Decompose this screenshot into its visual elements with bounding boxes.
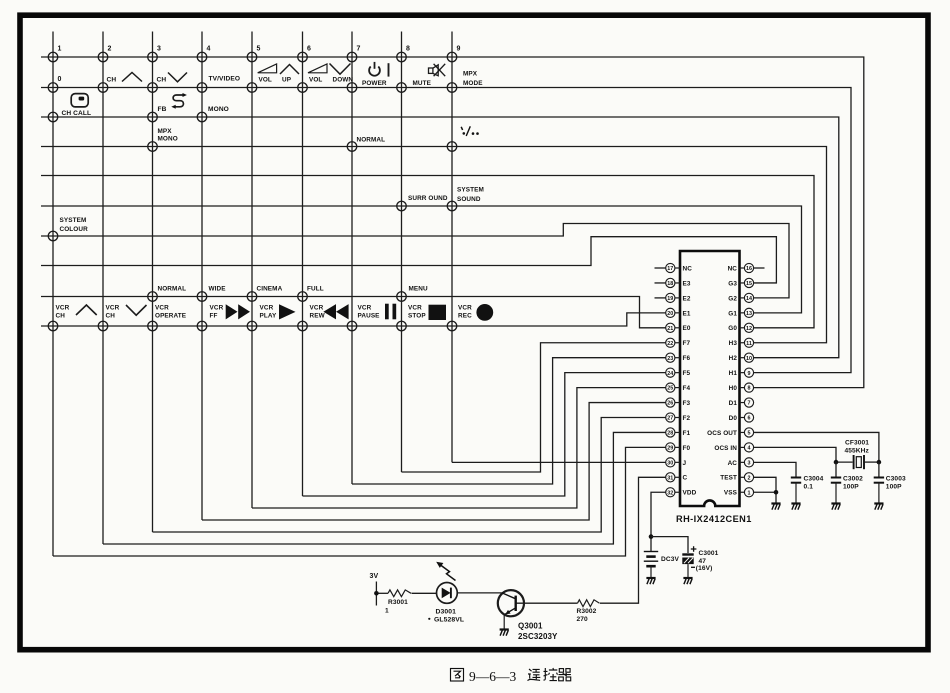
svg-text:PAUSE: PAUSE: [358, 313, 381, 320]
pin 32 VDD: [666, 488, 697, 497]
button key 5: [247, 52, 257, 62]
pin 5 OCS OUT: [707, 428, 753, 437]
svg-text:F6: F6: [683, 355, 691, 362]
svg-text:F0: F0: [683, 445, 691, 452]
pin 29 F0: [666, 443, 691, 452]
svg-text:MPX: MPX: [158, 128, 173, 135]
svg-text:C3001: C3001: [699, 550, 719, 557]
svg-text:D0: D0: [729, 415, 738, 422]
wire NC stub pin17: [655, 267, 666, 269]
wire C pin31 to R3002: [600, 477, 666, 603]
svg-text:18: 18: [667, 281, 673, 287]
button key VCR PLAY: [247, 321, 257, 331]
label POWER with standby icon: [362, 62, 389, 87]
svg-text:VCR: VCR: [56, 305, 70, 312]
svg-text:(16V): (16V): [696, 565, 713, 572]
svg-text:31: 31: [667, 475, 673, 481]
svg-text:SYSTEM: SYSTEM: [60, 217, 87, 224]
pin 30 J: [666, 458, 687, 467]
svg-text:3: 3: [748, 460, 751, 466]
svg-text:VCR: VCR: [210, 305, 224, 312]
svg-text:STOP: STOP: [408, 313, 426, 320]
svg-text:23: 23: [667, 356, 673, 362]
pin 12 G0: [728, 323, 753, 332]
label MUTE with muted-speaker icon: [413, 64, 446, 87]
svg-text:47: 47: [699, 558, 707, 565]
label VCR OPERATE: [155, 305, 187, 320]
label Q3001 2SC3203Y: [518, 622, 558, 642]
button key SYSTEM COLOUR: [48, 231, 58, 241]
svg-text:POWER: POWER: [362, 80, 387, 87]
pin 4 OCS IN: [714, 443, 753, 452]
svg-text:G0: G0: [728, 325, 737, 332]
wire matrix row 5 to G0 pin12: [41, 176, 814, 328]
svg-text:TV/VIDEO: TV/VIDEO: [209, 76, 241, 83]
button key MUTE: [397, 83, 407, 93]
wire key-matrix column 3: [152, 32, 154, 533]
button key CH up: [98, 83, 108, 93]
button key FB: [148, 112, 158, 122]
svg-text:2: 2: [108, 46, 112, 53]
svg-text:F2: F2: [683, 415, 691, 422]
label dot/slash icon: [461, 126, 479, 136]
wire NC stub pin18 (E3): [655, 282, 666, 284]
svg-text:D3001: D3001: [436, 609, 457, 616]
svg-text:1: 1: [385, 608, 389, 615]
svg-text:13: 13: [746, 311, 752, 317]
label VCR REC with icon: [458, 304, 493, 321]
svg-text:E0: E0: [683, 325, 691, 332]
button key FULL: [298, 292, 308, 302]
svg-text:REC: REC: [458, 313, 472, 320]
svg-text:9: 9: [457, 46, 461, 53]
button key 4: [197, 52, 207, 62]
svg-text:3: 3: [157, 46, 161, 53]
svg-text:CINEMA: CINEMA: [257, 286, 283, 293]
wire F3 pin26 to column 4: [202, 403, 666, 520]
svg-text:F7: F7: [683, 340, 691, 347]
svg-text:1: 1: [748, 490, 751, 496]
svg-text:OCS OUT: OCS OUT: [707, 430, 737, 437]
junction resonator right: [877, 460, 882, 465]
svg-text:21: 21: [667, 326, 673, 332]
wire key-matrix column 4: [201, 32, 203, 521]
svg-text:FF: FF: [210, 313, 218, 320]
caption: figure 9-6-3 remote controller: [451, 668, 571, 681]
svg-text:F1: F1: [683, 430, 691, 437]
button key 8: [397, 52, 407, 62]
wire key-matrix column 1: [52, 32, 54, 557]
transistor Q3001 2SC3203Y: [498, 590, 524, 629]
wire matrix row 7 to G2 pin14: [41, 224, 789, 298]
button key VOL DOWN: [298, 83, 308, 93]
svg-text:SYSTEM: SYSTEM: [457, 187, 484, 194]
button key VCR CH up: [48, 321, 58, 331]
button key MPX MONO: [148, 142, 158, 152]
svg-text:COLOUR: COLOUR: [60, 226, 89, 233]
label CF3001 455KHz: [845, 440, 870, 455]
svg-text:E1: E1: [683, 310, 691, 317]
junction VSS/TEST: [774, 490, 779, 495]
pin 15 G3: [728, 278, 753, 287]
junction resonator left: [834, 460, 839, 465]
wire F1 pin28 to column 2: [103, 432, 666, 544]
button key MENU: [397, 292, 407, 302]
wire VDD pin32 to battery node: [651, 492, 666, 551]
wire TEST pin2 to ground net: [754, 477, 777, 492]
ground (Q3001 emitter): [500, 630, 509, 636]
button key SYSTEM SOUND: [447, 201, 457, 211]
svg-text:SURR OUND: SURR OUND: [408, 195, 448, 202]
svg-text:2SC3203Y: 2SC3203Y: [518, 632, 558, 641]
svg-text:CH: CH: [157, 77, 167, 84]
pin 21 E0: [666, 323, 691, 332]
svg-text:NC: NC: [728, 265, 738, 272]
svg-text:100P: 100P: [843, 484, 859, 491]
svg-text:C3002: C3002: [843, 476, 863, 483]
svg-text:8: 8: [406, 46, 410, 53]
wire matrix row 10 (VCR row) to E1 pin20: [41, 313, 666, 326]
svg-text:12: 12: [746, 326, 752, 332]
svg-text:DOWN: DOWN: [333, 77, 354, 84]
svg-text:FULL: FULL: [307, 286, 324, 293]
button key POWER: [347, 83, 357, 93]
pin 16 NC: [728, 263, 754, 272]
svg-text:MODE: MODE: [463, 80, 483, 87]
wire NC stub pin19 (E2): [655, 297, 666, 299]
LED D3001 infrared: [436, 562, 457, 604]
svg-text:F4: F4: [683, 385, 691, 392]
button key VCR STOP: [397, 321, 407, 331]
button key WIDE: [197, 292, 207, 302]
wire F7 pin22 to column 8: [402, 343, 666, 472]
svg-text:UP: UP: [282, 77, 292, 84]
pin 22 F7: [666, 338, 691, 347]
svg-text:27: 27: [667, 416, 673, 422]
ground (C3004): [791, 504, 800, 510]
svg-text:2: 2: [748, 475, 751, 481]
svg-text:11: 11: [746, 341, 752, 347]
svg-text:E3: E3: [683, 280, 691, 287]
pin 19 E2: [666, 293, 691, 302]
pin 14 G2: [728, 293, 753, 302]
svg-text:30: 30: [667, 460, 673, 466]
svg-text:RH-IX2412CEN1: RH-IX2412CEN1: [676, 514, 752, 524]
label C3002 100P: [843, 476, 863, 491]
button key 0: [48, 83, 58, 93]
svg-text:PLAY: PLAY: [260, 313, 277, 320]
button key VCR FF: [197, 321, 207, 331]
label MPX MONO: [158, 128, 178, 143]
wire R3001 to LED: [412, 592, 437, 594]
pin 13 G1: [728, 308, 753, 317]
svg-text:455KHz: 455KHz: [845, 448, 870, 455]
pin 2 TEST: [720, 473, 753, 482]
resistor R3002: [578, 600, 600, 607]
svg-text:16: 16: [746, 266, 752, 272]
wire VDD node to C3001: [651, 537, 688, 553]
ground (C3001): [683, 578, 692, 584]
button key VCR REC: [447, 321, 457, 331]
wire matrix row 6 to G1 pin13: [41, 206, 802, 313]
ground (battery): [646, 578, 655, 584]
button key 1: [48, 52, 58, 62]
wire key-matrix column 2: [102, 32, 104, 545]
svg-text:R3002: R3002: [577, 608, 597, 615]
svg-text:1: 1: [58, 46, 62, 53]
svg-text:4: 4: [748, 446, 751, 452]
pin 26 F3: [666, 398, 691, 407]
svg-text:9: 9: [748, 371, 751, 377]
pin 11 H3: [729, 338, 754, 347]
svg-text:CH: CH: [56, 313, 66, 320]
svg-text:H1: H1: [729, 370, 738, 377]
svg-text:VOL: VOL: [259, 77, 272, 84]
svg-text:H2: H2: [729, 355, 738, 362]
pin 10 H2: [729, 353, 754, 362]
label VCR PAUSE with icon: [358, 304, 397, 320]
label CH CALL with icon: [62, 94, 92, 117]
label VCR STOP with icon: [408, 305, 446, 321]
wire key-matrix column 5: [251, 32, 253, 509]
label CH up: [107, 73, 143, 84]
svg-text:C3003: C3003: [886, 476, 906, 483]
svg-text:100P: 100P: [886, 484, 902, 491]
wire matrix row 1 to H0 pin8: [41, 57, 864, 388]
label VCR CH down with icon: [106, 305, 147, 320]
svg-text:OPERATE: OPERATE: [155, 313, 187, 320]
label VOL DOWN with icon: [308, 64, 353, 84]
button key VCR PAUSE: [347, 321, 357, 331]
svg-text:VCR: VCR: [106, 305, 120, 312]
button key 7: [347, 52, 357, 62]
op-amp U1: IC RH-IX2412CEN1 body: [680, 251, 740, 506]
wire matrix row 2 to H1 pin9: [41, 88, 851, 373]
button key VOL UP: [247, 83, 257, 93]
junction VDD node: [649, 534, 654, 539]
pin 20 E1: [666, 308, 691, 317]
label R3001 1: [385, 599, 408, 615]
svg-text:TEST: TEST: [720, 475, 737, 482]
label C3001 + 47 (16V): [691, 546, 719, 572]
svg-text:VOL: VOL: [309, 77, 322, 84]
label VOL UP with icon: [258, 64, 299, 84]
button key SURROUND: [397, 201, 407, 211]
svg-text:MENU: MENU: [409, 286, 429, 293]
svg-text:VCR: VCR: [358, 305, 372, 312]
svg-text:20: 20: [667, 311, 673, 317]
wire F5 pin24 to column 6: [303, 373, 666, 496]
svg-text:NORMAL: NORMAL: [357, 137, 386, 144]
label CH down: [157, 73, 188, 84]
svg-text:24: 24: [667, 371, 673, 377]
svg-text:H3: H3: [729, 340, 738, 347]
pin 3 AC: [728, 458, 754, 467]
capacitor C3003 100P: [874, 462, 884, 503]
svg-text:10: 10: [746, 356, 752, 362]
svg-text:9—6—3: 9—6—3: [469, 669, 517, 684]
svg-text:MONO: MONO: [158, 136, 178, 143]
svg-text:VSS: VSS: [724, 490, 738, 497]
wire matrix row 9 to E0 pin21: [41, 297, 666, 328]
svg-text:25: 25: [667, 386, 673, 392]
button key CH down: [148, 83, 158, 93]
ground (VSS): [771, 504, 780, 510]
svg-text:VCR: VCR: [310, 305, 324, 312]
svg-text:G1: G1: [728, 310, 737, 317]
svg-text:GL528VL: GL528VL: [434, 617, 464, 624]
wire NC stub pin16: [754, 267, 765, 269]
svg-text:5: 5: [748, 431, 751, 437]
svg-text:3V: 3V: [370, 573, 379, 580]
svg-text:VCR: VCR: [155, 305, 169, 312]
button key 3: [148, 52, 158, 62]
wire 3V to R3001: [376, 592, 388, 594]
pin 1 VSS: [724, 488, 754, 497]
wire OCS IN pin4 to resonator: [754, 447, 837, 462]
wire F0 pin29 to column 1: [53, 447, 666, 556]
svg-text:R3001: R3001: [388, 599, 408, 606]
svg-text:0.1: 0.1: [804, 484, 814, 491]
ground (C3002): [831, 504, 840, 510]
pin 27 F2: [666, 413, 691, 422]
svg-text:5: 5: [257, 46, 261, 53]
label R3002 270: [577, 608, 597, 623]
svg-text:6: 6: [748, 416, 751, 422]
capacitor C3004 0.1: [791, 478, 801, 504]
button key VCR OPERATE: [148, 321, 158, 331]
wire F2 pin27 to column 3: [153, 418, 666, 533]
svg-text:29: 29: [667, 446, 673, 452]
label C3004 0.1: [804, 476, 824, 491]
svg-text:NORMAL: NORMAL: [158, 286, 187, 293]
label FB with loop icon: [158, 93, 187, 113]
svg-text:F5: F5: [683, 370, 691, 377]
svg-text:SOUND: SOUND: [457, 196, 481, 203]
button key NORMAL (picture): [148, 292, 158, 302]
button key MPX MODE: [447, 83, 457, 93]
svg-text:15: 15: [746, 281, 752, 287]
wire VSS pin1 to ground: [754, 492, 777, 503]
button key NORMAL: [347, 142, 357, 152]
button key VCR REW: [298, 321, 308, 331]
wire AC pin3 to C3004: [754, 462, 797, 477]
svg-text:32: 32: [667, 490, 673, 496]
button key MONO: [197, 112, 207, 122]
svg-text:CF3001: CF3001: [845, 440, 869, 447]
svg-text:REW: REW: [310, 313, 326, 320]
label key numbers 1-9: [58, 46, 461, 53]
svg-text:7: 7: [357, 46, 361, 53]
resistor R3001: [388, 590, 411, 597]
svg-text:FB: FB: [158, 106, 167, 113]
svg-text:MONO: MONO: [208, 106, 229, 113]
svg-text:6: 6: [307, 46, 311, 53]
label VCR FF with icon: [210, 304, 251, 319]
svg-text:17: 17: [667, 266, 673, 272]
svg-text:CH: CH: [107, 77, 117, 84]
svg-text:MUTE: MUTE: [413, 80, 432, 87]
button key CH CALL: [48, 112, 58, 122]
capacitor C3002 100P: [831, 462, 841, 503]
label VCR CH up with icon: [56, 305, 97, 320]
svg-text:26: 26: [667, 401, 673, 407]
node 3V supply terminal: [374, 582, 379, 606]
button key VCR CH down: [98, 321, 108, 331]
pin 6 D0: [729, 413, 754, 422]
svg-text:NC: NC: [683, 265, 693, 272]
svg-text:8: 8: [748, 386, 751, 392]
svg-text:14: 14: [746, 296, 752, 302]
svg-text:VCR: VCR: [408, 305, 422, 312]
button key TV/VIDEO: [197, 83, 207, 93]
label VCR REW with icon: [310, 304, 349, 319]
wire resonator right node: [865, 461, 879, 463]
svg-text:VCR: VCR: [260, 305, 274, 312]
wire matrix row 4 to H3 pin11: [41, 147, 827, 343]
button key 2: [98, 52, 108, 62]
svg-text:D1: D1: [729, 400, 738, 407]
pin 24 F5: [666, 368, 691, 377]
svg-text:G3: G3: [728, 280, 737, 287]
wire F6 pin23 to column 7: [352, 358, 666, 484]
pin 28 F1: [666, 428, 691, 437]
svg-text:22: 22: [667, 341, 673, 347]
battery DC3V: [644, 552, 658, 578]
pin 17 NC: [666, 263, 693, 272]
label MPX MODE: [463, 71, 483, 88]
wire J pin30 to column 9: [452, 461, 666, 463]
wire key-matrix column 9: [451, 32, 453, 463]
svg-text:28: 28: [667, 431, 673, 437]
wire matrix row 8 to G3 pin15: [41, 237, 776, 283]
label VCR PLAY with icon: [260, 304, 296, 319]
label SYSTEM SOUND: [457, 187, 484, 204]
svg-text:CH CALL: CH CALL: [62, 110, 92, 117]
label D3001 GL528VL: [428, 609, 464, 624]
capacitor C3001 47uF electrolytic: [682, 555, 693, 578]
button key dot-slash: [447, 142, 457, 152]
pin 9 H1: [729, 368, 754, 377]
svg-text:WIDE: WIDE: [209, 286, 227, 293]
svg-text:VCR: VCR: [458, 305, 472, 312]
wire resonator left node: [836, 461, 853, 463]
pin 7 D1: [729, 398, 754, 407]
ground (C3003): [874, 504, 883, 510]
wire key-matrix column 7: [351, 32, 353, 485]
pin 18 E3: [666, 278, 691, 287]
wire R3002 to transistor base: [516, 602, 578, 604]
svg-text:19: 19: [667, 296, 673, 302]
label SYSTEM COLOUR: [60, 217, 89, 233]
svg-text:Q3001: Q3001: [518, 622, 543, 631]
svg-text:G2: G2: [728, 295, 737, 302]
label C3003 100P: [886, 476, 906, 491]
wire F4 pin25 to column 5: [252, 388, 666, 508]
pin 31 C: [666, 473, 688, 482]
svg-text:E2: E2: [683, 295, 691, 302]
svg-text:AC: AC: [728, 460, 738, 467]
button key CINEMA: [247, 292, 257, 302]
svg-text:VDD: VDD: [683, 490, 697, 497]
svg-text:H0: H0: [729, 385, 738, 392]
svg-text:C: C: [683, 475, 688, 482]
wire key-matrix column 6: [302, 32, 304, 497]
svg-text:F3: F3: [683, 400, 691, 407]
wire LED to transistor collector: [457, 592, 502, 594]
svg-text:7: 7: [748, 401, 751, 407]
svg-text:C3004: C3004: [804, 476, 824, 483]
